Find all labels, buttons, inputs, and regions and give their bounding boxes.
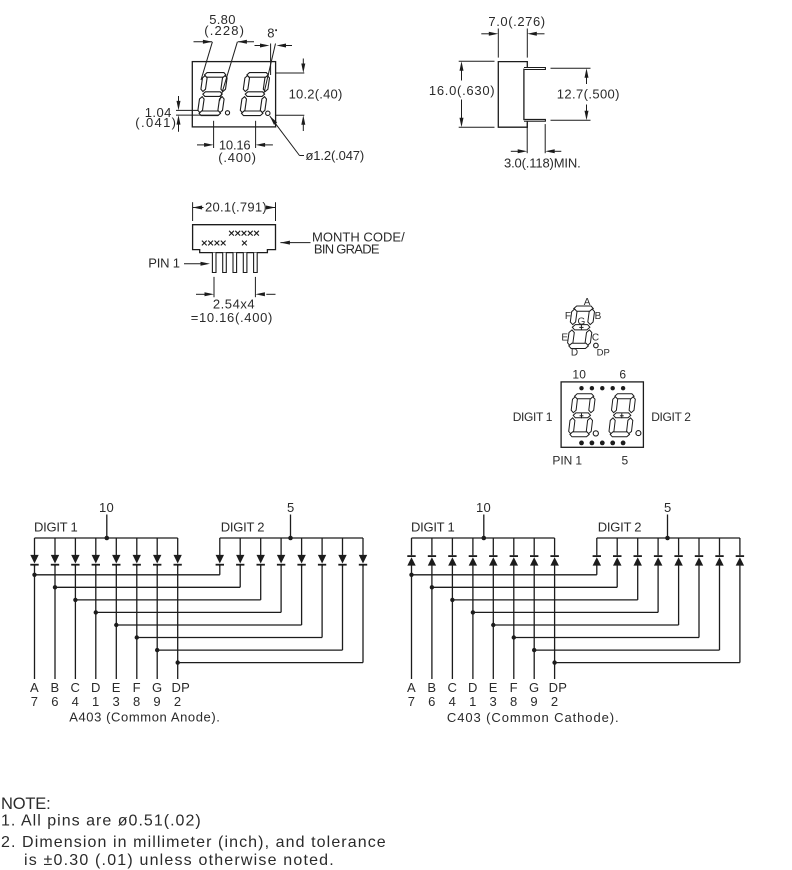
svg-text:E: E xyxy=(112,680,121,695)
svg-text:3: 3 xyxy=(113,694,121,709)
schematic A403: LED diode digit 1 segment D xyxy=(92,538,100,567)
schematic A403: LED diode digit 1 segment G xyxy=(153,538,161,567)
svg-text:B: B xyxy=(51,680,60,695)
schematic C403: junction segment E xyxy=(491,623,495,627)
schematic A403: wire digit 1 segment B vertical xyxy=(54,565,56,679)
schematic A403: pin 10 junction xyxy=(105,536,110,541)
schematic C403: junction segment C xyxy=(450,598,454,602)
svg-text:A: A xyxy=(407,680,416,695)
schematic C403: pin 5 wire xyxy=(667,515,669,539)
side view: package body outline xyxy=(498,62,527,128)
dimension 10.2(.40): lower arrow xyxy=(302,123,304,131)
front view digit 1 segment G xyxy=(203,92,222,97)
svg-text:PIN 1: PIN 1 xyxy=(148,256,180,271)
pin layout digit 2 segment C xyxy=(627,418,633,434)
svg-text:10: 10 xyxy=(476,500,491,515)
front view digit 1 segment E xyxy=(198,97,204,113)
schematic C403: junction segment G xyxy=(532,648,536,652)
rear view: pin 5 xyxy=(254,253,258,273)
schematic A403: LED diode digit 1 segment C xyxy=(71,538,79,567)
pin layout digit 1 G pointer mark xyxy=(580,415,584,417)
schematic C403: junction segment B xyxy=(430,585,434,589)
front view digit 2 segment F xyxy=(243,76,249,92)
svg-text:DIGIT 1: DIGIT 1 xyxy=(411,520,455,535)
schematic C403: LED diode digit 2 segment C xyxy=(634,538,642,566)
dimension 8 deg: vertical reference line xyxy=(270,44,272,76)
schematic A403: junction segment C xyxy=(73,598,77,602)
svg-text:DP: DP xyxy=(597,348,610,359)
front view digit 1 segment D xyxy=(199,111,220,116)
schematic A403: LED diode digit 2 segment D xyxy=(277,538,285,567)
segment diagram digit segment G xyxy=(572,325,590,330)
svg-text:DP: DP xyxy=(171,680,190,695)
pin layout digit 2 segment G xyxy=(614,413,631,418)
svg-text:8: 8 xyxy=(510,694,518,709)
svg-text:2: 2 xyxy=(551,694,559,709)
svg-text:12.7(.500): 12.7(.500) xyxy=(557,87,620,102)
pin layout: bottom pin dot 3 xyxy=(600,441,605,446)
schematic C403: junction segment D xyxy=(471,610,475,614)
svg-text:4: 4 xyxy=(72,694,80,709)
svg-text:ø1.2(.047): ø1.2(.047) xyxy=(306,148,365,163)
pin layout: bottom pin dot 4 xyxy=(610,441,615,446)
segment diagram digit segment B xyxy=(588,309,595,325)
schematic C403: LED diode digit 2 segment B xyxy=(613,538,622,566)
svg-text:5: 5 xyxy=(287,500,295,515)
schematic A403: net segment D horizontal wire xyxy=(96,611,281,613)
schematic A403: LED diode digit 1 segment E xyxy=(112,538,120,567)
pin layout: bottom pin dot 1 xyxy=(579,441,584,446)
schematic C403: wire digit 1 segment C vertical xyxy=(451,565,453,679)
dimension 2.54x4: extension lines xyxy=(213,277,215,297)
svg-text:A: A xyxy=(30,680,39,695)
leader dia 1.2(.047): arrow at decimal point xyxy=(270,116,277,125)
schematic A403: LED diode digit 1 segment DP xyxy=(174,538,182,567)
schematic C403: junction segment A xyxy=(409,573,413,577)
side view: inner body edge xyxy=(523,69,525,121)
schematic A403: pin 10 wire xyxy=(106,515,108,539)
schematic C403: wire digit 2 segment C vertical xyxy=(637,565,639,600)
dimension 8 deg: degree dot xyxy=(275,29,277,31)
dimension 16.0(.630): extension lines xyxy=(459,60,495,62)
pin layout digit 1 decimal point xyxy=(593,431,598,436)
schematic C403: wire digit 2 segment DP vertical xyxy=(739,565,741,663)
front view digit 2 segment D xyxy=(242,111,263,116)
schematic A403: wire digit 2 segment DP vertical xyxy=(362,565,364,663)
front view digit 1 segment C xyxy=(218,97,224,113)
schematic A403: wire digit 2 segment B vertical xyxy=(239,565,241,587)
schematic C403: wire digit 1 segment E vertical xyxy=(492,565,494,679)
svg-text:DIGIT 1: DIGIT 1 xyxy=(34,520,78,535)
svg-text:DIGIT 2: DIGIT 2 xyxy=(651,410,691,424)
schematic C403: net segment DP horizontal wire xyxy=(555,662,740,664)
front view digit 1 segment B xyxy=(221,76,227,92)
schematic A403: LED diode digit 2 segment E xyxy=(297,538,305,567)
svg-text:7: 7 xyxy=(408,694,416,709)
schematic A403: pin 5 wire xyxy=(290,515,292,539)
svg-text:20.1(.791): 20.1(.791) xyxy=(205,200,267,215)
svg-text:10: 10 xyxy=(99,500,114,515)
svg-text:6: 6 xyxy=(428,694,436,709)
front view digit 1 segment F xyxy=(201,76,207,92)
schematic A403: pin 5 junction xyxy=(288,536,293,541)
schematic C403: LED diode digit 1 segment DP xyxy=(550,538,559,566)
schematic C403: wire digit 2 segment B vertical xyxy=(616,565,618,587)
schematic C403: pin 10 junction xyxy=(482,536,487,541)
svg-text:C403 (Common Cathode).: C403 (Common Cathode). xyxy=(447,710,619,725)
front view digit 2 segment B xyxy=(263,76,269,92)
pin layout: bottom pin dot 2 xyxy=(590,441,595,446)
schematic A403: net segment G horizontal wire xyxy=(157,649,342,651)
dimension 7.0(.276): arrows xyxy=(481,33,490,35)
pin layout digit 2 decimal point xyxy=(636,431,641,436)
schematic A403: wire digit 2 segment C vertical xyxy=(260,565,262,600)
schematic A403: wire digit 2 segment A vertical xyxy=(219,565,221,575)
schematic C403: LED diode digit 1 segment E xyxy=(489,538,497,566)
svg-text:NOTE:: NOTE: xyxy=(1,795,51,813)
dimension 10.2(.40): upper arrow xyxy=(302,59,304,66)
dimension 1.04(.041): extension lines xyxy=(176,109,199,111)
schematic A403: net segment C horizontal wire xyxy=(75,599,260,601)
svg-text:9: 9 xyxy=(530,694,538,709)
dimension 16.0(.630): upper arrow xyxy=(461,70,463,81)
schematic C403: digit 1 common bus wire xyxy=(412,537,555,539)
svg-text:A: A xyxy=(584,297,591,308)
pin layout digit 2 segment D xyxy=(610,432,629,437)
front view digit 2 decimal point xyxy=(266,111,270,115)
svg-text:2: 2 xyxy=(174,694,182,709)
front view: display package outline xyxy=(192,62,275,127)
svg-text:C: C xyxy=(592,332,600,343)
schematic A403: net segment A horizontal wire xyxy=(35,574,220,576)
schematic C403: wire digit 1 segment A vertical xyxy=(411,565,413,679)
svg-text:9: 9 xyxy=(153,694,161,709)
svg-text:8: 8 xyxy=(133,694,141,709)
schematic A403: wire digit 1 segment A vertical xyxy=(34,565,36,679)
svg-text:7: 7 xyxy=(31,694,39,709)
dimension 16.0(.630): lower arrow xyxy=(461,100,463,120)
schematic A403: LED diode digit 2 segment F xyxy=(318,538,326,567)
svg-text:4: 4 xyxy=(449,694,457,709)
svg-text:=10.16(.400): =10.16(.400) xyxy=(191,310,273,325)
rear view: month code marks row 1 xyxy=(229,231,259,236)
pin layout: bottom pin dot 5 xyxy=(621,441,626,446)
schematic C403: net segment B horizontal wire xyxy=(432,586,617,588)
segment diagram digit segment C xyxy=(585,330,592,346)
schematic A403: LED diode digit 1 segment B xyxy=(51,538,59,567)
schematic C403: junction segment DP xyxy=(552,660,556,664)
schematic A403: junction segment A xyxy=(32,573,36,577)
schematic C403: wire digit 1 segment DP vertical xyxy=(554,565,556,679)
rear view: pin 1 xyxy=(212,253,216,273)
schematic C403: net segment E horizontal wire xyxy=(493,624,678,626)
schematic A403: net segment DP horizontal wire xyxy=(178,662,363,664)
schematic C403: LED diode digit 2 segment DP xyxy=(736,538,744,566)
schematic A403: LED diode digit 2 segment DP xyxy=(359,538,367,567)
schematic A403: LED diode digit 2 segment B xyxy=(236,538,244,567)
schematic A403: junction segment D xyxy=(94,610,98,614)
schematic C403: LED diode digit 2 segment A xyxy=(593,538,601,566)
schematic C403: net segment F horizontal wire xyxy=(514,637,699,639)
svg-text:D: D xyxy=(571,347,579,358)
schematic A403: wire digit 2 segment E vertical xyxy=(301,565,303,625)
schematic A403: wire digit 1 segment DP vertical xyxy=(177,565,179,679)
svg-text:10.2(.40): 10.2(.40) xyxy=(289,87,343,102)
svg-text:2. Dimension in millimeter (in: 2. Dimension in millimeter (inch), and t… xyxy=(1,834,386,851)
dimension 1.04(.041): upper arrow xyxy=(178,96,180,103)
schematic C403: pin 5 junction xyxy=(665,536,670,541)
dimension 12.7(.500): lower arrow xyxy=(586,105,588,113)
schematic C403: digit 2 common bus wire xyxy=(597,537,740,539)
svg-text:E: E xyxy=(561,332,568,343)
svg-text:B: B xyxy=(427,680,436,695)
schematic A403: wire digit 1 segment F vertical xyxy=(136,565,138,679)
svg-text:DIGIT 2: DIGIT 2 xyxy=(221,520,265,535)
schematic A403: wire digit 1 segment E vertical xyxy=(115,565,117,679)
schematic A403: digit 2 common bus wire xyxy=(220,537,363,539)
svg-text:C: C xyxy=(71,680,81,695)
schematic A403: LED diode digit 2 segment C xyxy=(257,538,265,567)
schematic A403: LED diode digit 1 segment F xyxy=(133,538,141,567)
svg-text:1. All pins are ø0.51(.02): 1. All pins are ø0.51(.02) xyxy=(1,813,201,830)
pin layout: top pin dot 9 xyxy=(590,386,594,390)
schematic C403: net segment C horizontal wire xyxy=(452,599,637,601)
schematic A403: junction segment B xyxy=(53,585,57,589)
schematic A403: LED diode digit 1 segment A xyxy=(30,538,38,567)
pin layout digit 2 segment B xyxy=(629,397,635,413)
pin layout digit 1 segment A xyxy=(575,394,594,399)
dimension 10.16(.400): dimension line and arrows xyxy=(197,144,206,146)
svg-text:10: 10 xyxy=(572,368,586,382)
rear view: package outline with notched corners xyxy=(193,225,276,253)
schematic C403: wire digit 2 segment F vertical xyxy=(698,565,700,638)
schematic C403: LED diode digit 1 segment C xyxy=(448,538,456,566)
schematic C403: wire digit 1 segment F vertical xyxy=(513,565,515,679)
pin layout digit 1 segment E xyxy=(569,418,575,434)
svg-text:1: 1 xyxy=(469,694,477,709)
svg-text:7.0(.276): 7.0(.276) xyxy=(488,14,545,29)
schematic A403: junction segment DP xyxy=(176,660,180,664)
schematic C403: junction segment F xyxy=(512,635,516,639)
pin layout digit 1 segment B xyxy=(589,397,595,413)
svg-text:A403 (Common Anode).: A403 (Common Anode). xyxy=(69,710,220,725)
dimension 3.0(.118)MIN: extension lines xyxy=(526,123,528,153)
svg-text:F: F xyxy=(565,311,571,322)
schematic C403: LED diode digit 2 segment E xyxy=(674,538,682,566)
svg-text:D: D xyxy=(468,680,478,695)
dimension 20.1(.791): dimension line and arrows xyxy=(193,206,203,210)
schematic A403: digit 1 common bus wire xyxy=(35,537,178,539)
schematic A403: junction segment F xyxy=(135,635,139,639)
pin layout digit 1 segment C xyxy=(586,418,592,434)
schematic C403: LED diode digit 1 segment F xyxy=(510,538,518,566)
svg-text:3: 3 xyxy=(490,694,498,709)
front view digit 1 decimal point xyxy=(225,111,229,115)
schematic A403: LED diode digit 2 segment G xyxy=(338,538,346,567)
front view digit 2 segment C xyxy=(260,97,266,113)
dimension 5.80(.228): slanted extension line left xyxy=(201,42,212,80)
svg-text:DIGIT 1: DIGIT 1 xyxy=(513,410,553,424)
svg-text:BIN GRADE: BIN GRADE xyxy=(314,241,380,256)
schematic C403: wire digit 1 segment G vertical xyxy=(533,565,535,679)
schematic C403: LED diode digit 1 segment G xyxy=(530,538,538,566)
rear view: bin grade mark xyxy=(242,241,247,246)
schematic C403: wire digit 1 segment B vertical xyxy=(431,565,433,679)
schematic A403: net segment E horizontal wire xyxy=(116,624,301,626)
dimension 10.2(.40): extension lines xyxy=(276,72,305,74)
svg-text:E: E xyxy=(489,680,498,695)
dimension 8 deg: slant reference line xyxy=(264,44,276,94)
pin layout digit 1 segment D xyxy=(570,432,589,437)
svg-text:3.0(.118)MIN.: 3.0(.118)MIN. xyxy=(504,156,581,171)
schematic C403: LED diode digit 2 segment D xyxy=(654,538,663,566)
svg-text:8: 8 xyxy=(267,26,275,41)
pin layout digit 1 segment G xyxy=(573,413,590,418)
rear view: pin 3 xyxy=(233,253,237,273)
rear view: month code marks row 2 xyxy=(202,241,226,246)
pin layout: top pin dot 6 xyxy=(621,386,625,390)
pin layout: top pin dot 8 xyxy=(600,386,604,390)
schematic C403: net segment D horizontal wire xyxy=(473,611,658,613)
schematic C403: wire digit 2 segment G vertical xyxy=(719,565,721,650)
svg-text:5: 5 xyxy=(622,453,629,467)
schematic C403: LED diode digit 2 segment G xyxy=(715,538,723,566)
schematic C403: net segment G horizontal wire xyxy=(534,649,719,651)
segment diagram digit segment A xyxy=(574,306,594,311)
svg-text:16.0(.630): 16.0(.630) xyxy=(429,83,495,98)
svg-text:is ±0.30 (.01) unless otherwis: is ±0.30 (.01) unless otherwise noted. xyxy=(24,852,334,869)
pin layout: top pin dot 10 xyxy=(579,386,583,390)
schematic A403: net segment F horizontal wire xyxy=(137,637,322,639)
pin layout digit 1 segment F xyxy=(571,397,577,413)
svg-text:G: G xyxy=(529,680,539,695)
schematic A403: wire digit 1 segment D vertical xyxy=(95,565,97,679)
leader dia 1.2(.047): leader line xyxy=(270,116,300,155)
front view digit 1 segment A xyxy=(205,73,226,78)
side view: top lead xyxy=(524,68,545,70)
schematic C403: LED diode digit 2 segment F xyxy=(695,538,703,566)
svg-text:C: C xyxy=(448,680,458,695)
svg-text:1: 1 xyxy=(92,694,100,709)
rear view: pin 2 xyxy=(223,253,227,273)
svg-text:(.228): (.228) xyxy=(204,23,244,38)
front view digit 2 segment A xyxy=(247,73,268,78)
schematic C403: wire digit 2 segment A vertical xyxy=(596,565,598,575)
pin layout digit 2 G pointer mark xyxy=(620,415,624,417)
svg-text:2.54x4: 2.54x4 xyxy=(213,296,255,311)
dimension 5.80(.228): slanted extension line right xyxy=(220,42,238,101)
schematic C403: LED diode digit 1 segment D xyxy=(469,538,477,566)
svg-text:PIN 1: PIN 1 xyxy=(552,453,582,467)
schematic A403: junction segment G xyxy=(155,648,159,652)
svg-text:(.041): (.041) xyxy=(135,115,176,130)
segment diagram digit segment D xyxy=(569,343,589,348)
dimension 7.0(.276): extension lines xyxy=(497,29,499,58)
dimension 8 deg: arrows xyxy=(255,45,262,47)
schematic C403: wire digit 2 segment E vertical xyxy=(678,565,680,625)
svg-text:F: F xyxy=(510,680,518,695)
segment label G pointer mark xyxy=(580,325,582,330)
side view: bottom lead xyxy=(524,119,545,121)
schematic A403: wire digit 2 segment F vertical xyxy=(321,565,323,638)
segment diagram digit segment F xyxy=(570,309,577,325)
dimension 3.0(.118)MIN: arrows xyxy=(511,150,519,152)
svg-text:B: B xyxy=(595,311,602,322)
svg-text:6: 6 xyxy=(51,694,59,709)
svg-text:DP: DP xyxy=(549,680,568,695)
svg-text:G: G xyxy=(152,680,162,695)
segment diagram: decimal point circle xyxy=(594,343,599,348)
dimension 5.80(.228): dimension line and arrows xyxy=(194,41,213,43)
dimension 2.54x4: dimension line and arrows xyxy=(196,293,205,295)
svg-text:DIGIT 2: DIGIT 2 xyxy=(598,520,642,535)
pin layout digit 2 segment E xyxy=(609,418,615,434)
schematic A403: junction segment E xyxy=(114,623,118,627)
schematic C403: LED diode digit 1 segment B xyxy=(428,538,436,566)
schematic C403: wire digit 2 segment D vertical xyxy=(657,565,659,612)
svg-text:F: F xyxy=(133,680,141,695)
dimension 12.7(.500): extension lines xyxy=(551,67,591,69)
pin layout digit 2 segment A xyxy=(615,394,634,399)
segment diagram digit segment E xyxy=(568,330,575,346)
svg-text:6: 6 xyxy=(619,368,626,382)
svg-text:D: D xyxy=(91,680,101,695)
svg-text:5: 5 xyxy=(664,500,672,515)
front view digit 2 segment G xyxy=(245,92,264,97)
pin layout digit 2 segment F xyxy=(612,397,618,413)
label PIN 1 leader arrow xyxy=(184,263,203,265)
schematic C403: net segment A horizontal wire xyxy=(412,574,597,576)
dimension 1.04(.041): lower arrow xyxy=(178,123,180,132)
schematic A403: LED diode digit 2 segment A xyxy=(216,538,224,567)
svg-text:(.400): (.400) xyxy=(218,150,256,165)
dimension 10.16(.400): extension ticks xyxy=(213,121,215,148)
schematic A403: wire digit 2 segment G vertical xyxy=(342,565,344,650)
schematic C403: LED diode digit 1 segment A xyxy=(407,538,415,566)
schematic A403: net segment B horizontal wire xyxy=(55,586,240,588)
pin layout: package outline xyxy=(561,382,643,447)
dimension 20.1(.791): extension lines xyxy=(192,202,194,221)
rear view: pin 4 xyxy=(243,253,247,273)
pin layout: top pin dot 7 xyxy=(611,386,615,390)
dimension 12.7(.500): upper arrow xyxy=(586,77,588,85)
schematic C403: wire digit 1 segment D vertical xyxy=(472,565,474,679)
label MONTH CODE / BIN GRADE leader arrow xyxy=(280,241,290,245)
schematic A403: wire digit 2 segment D vertical xyxy=(280,565,282,612)
schematic A403: wire digit 1 segment C vertical xyxy=(74,565,76,679)
front view digit 2 segment E xyxy=(240,97,246,113)
schematic A403: wire digit 1 segment G vertical xyxy=(156,565,158,679)
schematic C403: pin 10 wire xyxy=(483,515,485,539)
